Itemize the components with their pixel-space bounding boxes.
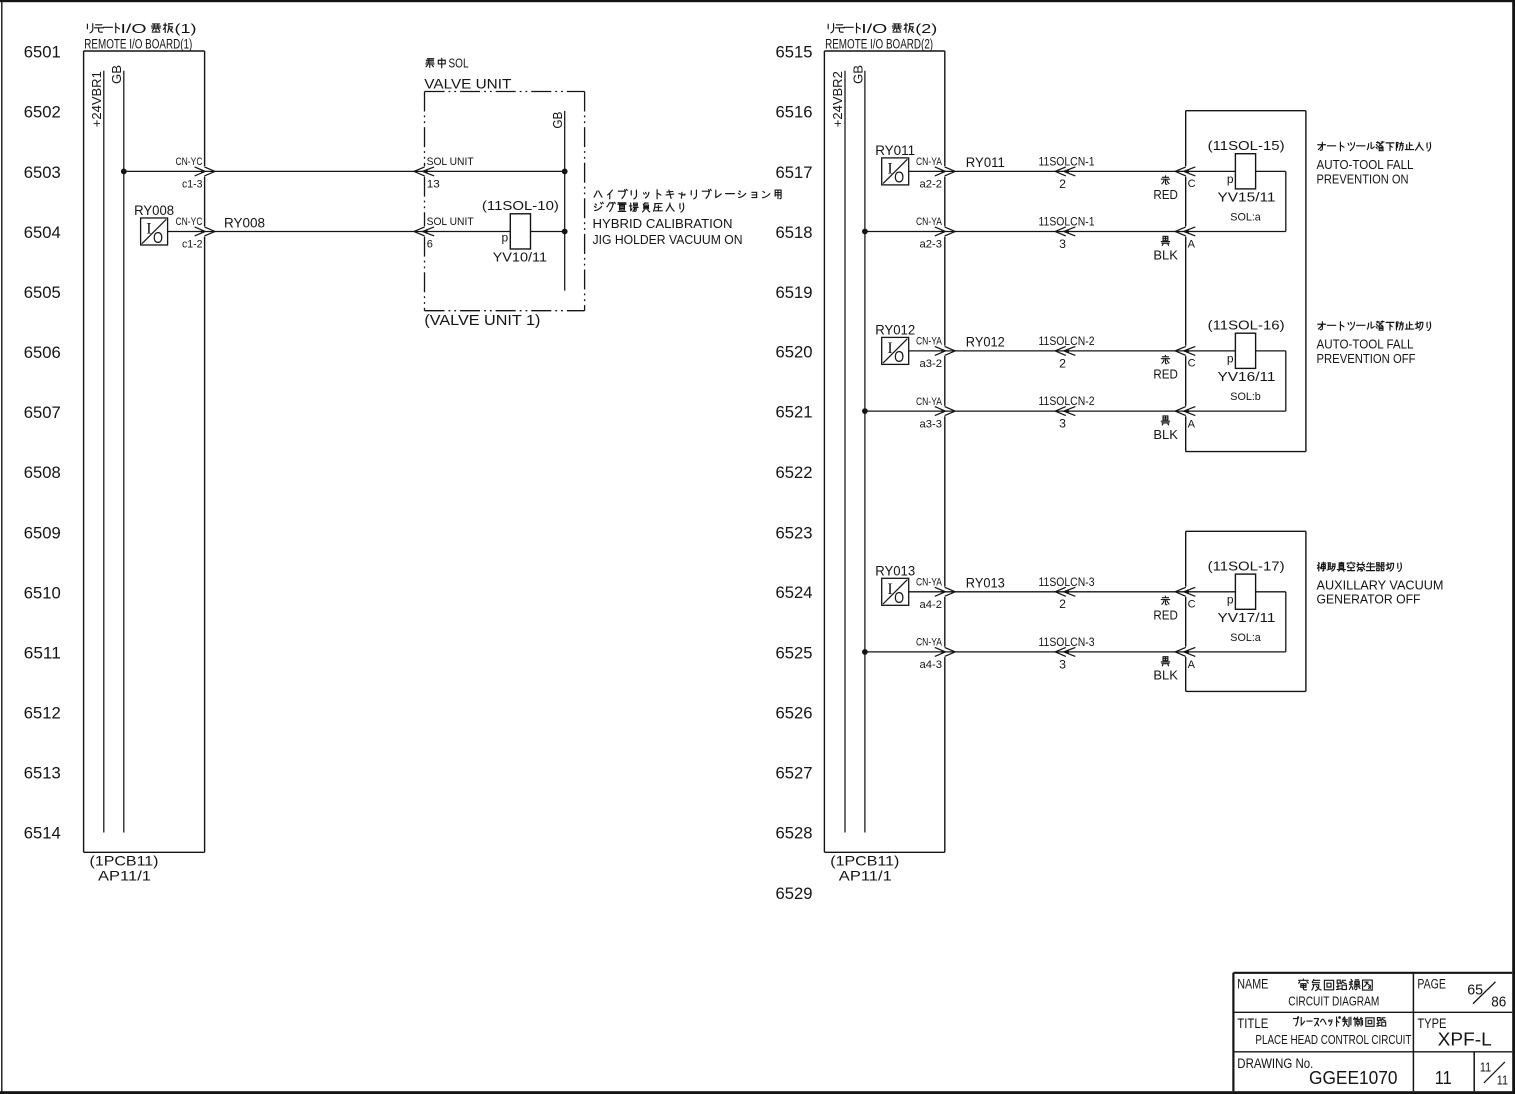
svg-text:6518: 6518 <box>776 224 813 242</box>
svg-text:11SOLCN-1: 11SOLCN-1 <box>1039 154 1095 168</box>
svg-text:RY008: RY008 <box>224 215 265 230</box>
svg-text:6515: 6515 <box>776 44 813 62</box>
svg-text:6506: 6506 <box>24 344 61 362</box>
svg-text:6509: 6509 <box>24 524 61 542</box>
svg-text:6511: 6511 <box>24 644 61 662</box>
svg-text:O: O <box>153 230 163 247</box>
svg-text:p: p <box>1227 352 1234 366</box>
svg-text:6504: 6504 <box>24 224 61 242</box>
svg-text:(1PCB11): (1PCB11) <box>90 853 159 869</box>
svg-text:TITLE: TITLE <box>1237 1016 1268 1031</box>
svg-text:11SOLCN-3: 11SOLCN-3 <box>1039 575 1095 589</box>
svg-text:RED: RED <box>1153 187 1178 202</box>
svg-text:a4-3: a4-3 <box>920 659 943 671</box>
svg-text:+24VBR2: +24VBR2 <box>830 71 845 127</box>
svg-text:6505: 6505 <box>24 284 61 302</box>
svg-text:YV15/11: YV15/11 <box>1218 189 1276 204</box>
svg-text:(11SOL-10): (11SOL-10) <box>482 198 559 213</box>
svg-text:AUXILLARY VACUUM: AUXILLARY VACUUM <box>1317 579 1444 593</box>
svg-text:RY011: RY011 <box>875 143 915 158</box>
svg-text:I: I <box>887 161 892 178</box>
svg-text:O: O <box>894 170 904 187</box>
svg-text:CN-YA: CN-YA <box>916 156 943 168</box>
svg-text:RY012: RY012 <box>966 335 1005 350</box>
svg-text:PAGE: PAGE <box>1417 977 1446 992</box>
svg-text:a3-3: a3-3 <box>920 418 943 430</box>
svg-text:3: 3 <box>1059 237 1066 251</box>
svg-text:CIRCUIT DIAGRAM: CIRCUIT DIAGRAM <box>1288 993 1379 1008</box>
svg-text:RY011: RY011 <box>966 155 1005 170</box>
svg-text:3: 3 <box>1059 417 1066 431</box>
svg-text:YV10/11: YV10/11 <box>493 250 547 265</box>
svg-text:YV17/11: YV17/11 <box>1218 610 1276 625</box>
svg-text:BLK: BLK <box>1153 427 1178 442</box>
svg-text:11SOLCN-2: 11SOLCN-2 <box>1039 394 1095 408</box>
svg-text:AUTO-TOOL FALL: AUTO-TOOL FALL <box>1317 338 1414 352</box>
svg-text:6522: 6522 <box>776 464 813 482</box>
svg-text:XPF-L: XPF-L <box>1438 1028 1492 1049</box>
svg-text:GB: GB <box>550 112 565 129</box>
svg-text:11SOLCN-3: 11SOLCN-3 <box>1039 635 1095 649</box>
svg-text:I/O: I/O <box>121 22 147 36</box>
svg-text:c1-2: c1-2 <box>182 239 203 251</box>
svg-text:2: 2 <box>1059 597 1066 611</box>
svg-text:6513: 6513 <box>24 765 61 783</box>
svg-text:(1): (1) <box>175 22 197 36</box>
svg-text:(11SOL-17): (11SOL-17) <box>1208 559 1285 574</box>
svg-text:RY013: RY013 <box>966 576 1005 591</box>
svg-text:6501: 6501 <box>24 44 61 62</box>
svg-text:a4-2: a4-2 <box>920 599 943 611</box>
svg-text:C: C <box>1188 358 1196 370</box>
svg-text:GENERATOR OFF: GENERATOR OFF <box>1317 593 1421 607</box>
svg-text:6514: 6514 <box>24 825 61 843</box>
svg-text:C: C <box>1188 178 1196 190</box>
svg-text:C: C <box>1188 598 1196 610</box>
svg-text:CN-YC: CN-YC <box>176 216 203 228</box>
svg-text:+24VBR1: +24VBR1 <box>89 71 104 127</box>
svg-text:SOL UNIT: SOL UNIT <box>427 216 474 228</box>
svg-text:GGEE1070: GGEE1070 <box>1309 1068 1398 1088</box>
svg-text:6525: 6525 <box>776 644 813 662</box>
svg-text:(1PCB11): (1PCB11) <box>830 853 899 869</box>
svg-text:2: 2 <box>1059 177 1066 191</box>
svg-text:PREVENTION OFF: PREVENTION OFF <box>1317 352 1416 366</box>
svg-text:YV16/11: YV16/11 <box>1218 369 1276 384</box>
svg-text:BLK: BLK <box>1153 247 1178 262</box>
svg-text:NAME: NAME <box>1237 977 1268 992</box>
svg-text:RY013: RY013 <box>875 563 915 578</box>
svg-text:11: 11 <box>1497 1073 1508 1087</box>
svg-text:CN-YA: CN-YA <box>916 577 943 589</box>
svg-text:6520: 6520 <box>776 343 813 361</box>
svg-text:RY008: RY008 <box>134 203 174 218</box>
svg-text:11SOLCN-1: 11SOLCN-1 <box>1039 214 1095 228</box>
svg-text:6: 6 <box>427 239 433 251</box>
svg-text:CN-YA: CN-YA <box>916 396 943 408</box>
svg-text:6516: 6516 <box>776 104 813 122</box>
svg-text:6526: 6526 <box>776 705 813 723</box>
svg-text:A: A <box>1188 418 1196 430</box>
svg-text:11SOLCN-2: 11SOLCN-2 <box>1039 334 1095 348</box>
svg-text:6519: 6519 <box>776 284 813 302</box>
svg-text:6521: 6521 <box>776 404 813 422</box>
svg-text:13: 13 <box>427 179 440 191</box>
svg-text:GB: GB <box>109 65 124 84</box>
svg-text:CN-YA: CN-YA <box>916 637 943 649</box>
svg-text:6517: 6517 <box>776 164 813 182</box>
svg-text:RED: RED <box>1153 367 1178 382</box>
svg-text:I: I <box>887 581 892 598</box>
svg-text:A: A <box>1188 659 1196 671</box>
svg-text:PREVENTION ON: PREVENTION ON <box>1317 172 1409 186</box>
svg-text:p: p <box>502 231 509 245</box>
svg-text:I: I <box>887 340 892 357</box>
svg-text:BLK: BLK <box>1153 668 1178 683</box>
svg-text:(11SOL-15): (11SOL-15) <box>1208 138 1285 153</box>
svg-text:AUTO-TOOL FALL: AUTO-TOOL FALL <box>1317 158 1414 172</box>
svg-text:a2-3: a2-3 <box>920 239 943 251</box>
svg-text:CN-YA: CN-YA <box>916 216 943 228</box>
svg-text:86: 86 <box>1491 993 1506 1010</box>
svg-text:REMOTE I/O BOARD(1): REMOTE I/O BOARD(1) <box>84 37 192 53</box>
svg-text:2: 2 <box>1059 356 1066 370</box>
svg-text:6527: 6527 <box>776 765 813 783</box>
svg-text:6503: 6503 <box>24 164 61 182</box>
svg-text:(11SOL-16): (11SOL-16) <box>1208 318 1285 333</box>
svg-text:AP11/1: AP11/1 <box>839 868 892 884</box>
svg-text:PLACE HEAD CONTROL CIRCUIT: PLACE HEAD CONTROL CIRCUIT <box>1255 1032 1411 1047</box>
svg-text:(VALVE UNIT 1): (VALVE UNIT 1) <box>424 313 540 329</box>
svg-text:SOL UNIT: SOL UNIT <box>427 156 474 168</box>
svg-text:6508: 6508 <box>24 464 61 482</box>
svg-text:6512: 6512 <box>24 705 61 723</box>
svg-text:SOL:b: SOL:b <box>1230 391 1261 403</box>
svg-text:6528: 6528 <box>776 825 813 843</box>
svg-text:p: p <box>1227 172 1234 186</box>
svg-text:GB: GB <box>850 65 865 84</box>
svg-text:11: 11 <box>1435 1068 1452 1088</box>
svg-text:I/O: I/O <box>861 22 887 36</box>
svg-text:CN-YA: CN-YA <box>916 336 943 348</box>
svg-text:p: p <box>1227 593 1234 607</box>
svg-text:6529: 6529 <box>776 885 813 903</box>
svg-text:6507: 6507 <box>24 404 61 422</box>
svg-text:SOL:a: SOL:a <box>1230 211 1261 223</box>
svg-text:(2): (2) <box>915 22 937 36</box>
svg-text:6523: 6523 <box>776 524 813 542</box>
svg-text:O: O <box>894 349 904 366</box>
svg-text:DRAWING No.: DRAWING No. <box>1237 1056 1313 1071</box>
svg-text:I: I <box>146 221 151 238</box>
svg-text:6510: 6510 <box>24 584 61 602</box>
svg-text:VALVE UNIT: VALVE UNIT <box>424 76 511 91</box>
svg-text:6502: 6502 <box>24 104 61 122</box>
svg-text:SOL: SOL <box>449 57 469 71</box>
svg-text:HYBRID CALIBRATION: HYBRID CALIBRATION <box>593 217 733 231</box>
svg-text:RY012: RY012 <box>875 322 915 337</box>
svg-text:JIG HOLDER VACUUM ON: JIG HOLDER VACUUM ON <box>593 233 743 247</box>
svg-text:RED: RED <box>1153 608 1178 623</box>
svg-text:SOL:a: SOL:a <box>1230 632 1261 644</box>
svg-text:6524: 6524 <box>776 584 813 602</box>
svg-text:CN-YC: CN-YC <box>176 156 203 168</box>
svg-text:O: O <box>894 590 904 607</box>
svg-text:3: 3 <box>1059 657 1066 671</box>
svg-text:a3-2: a3-2 <box>920 358 943 370</box>
svg-text:11: 11 <box>1480 1061 1491 1075</box>
svg-text:AP11/1: AP11/1 <box>98 868 151 884</box>
svg-text:c1-3: c1-3 <box>182 179 203 191</box>
svg-text:A: A <box>1188 239 1196 251</box>
svg-text:REMOTE I/O BOARD(2): REMOTE I/O BOARD(2) <box>825 37 933 53</box>
svg-text:a2-2: a2-2 <box>920 179 943 191</box>
